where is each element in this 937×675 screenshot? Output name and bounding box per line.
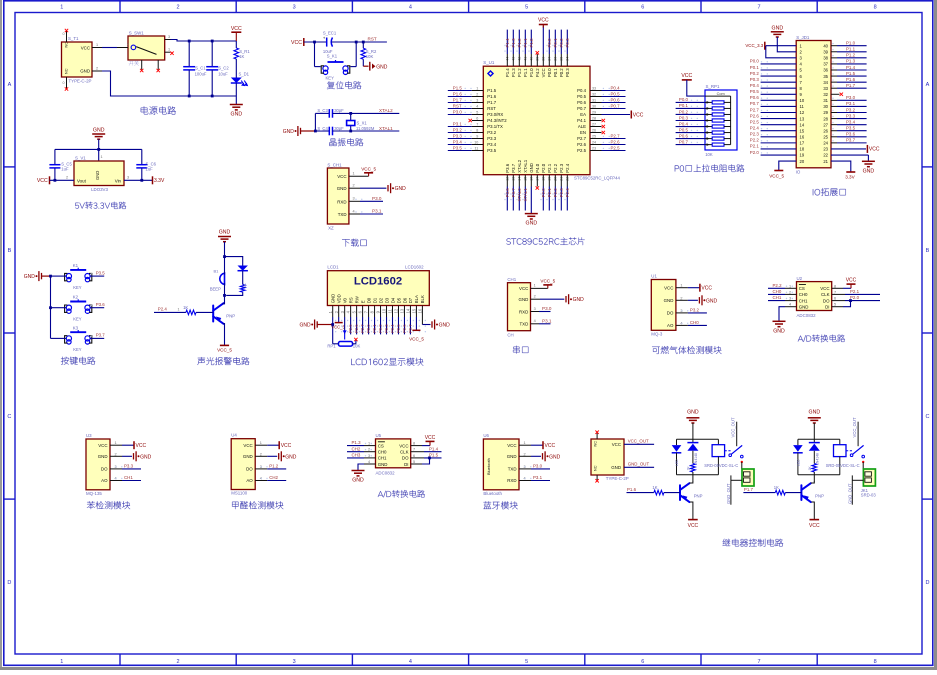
svg-text:GND: GND (611, 465, 621, 470)
ground GND power (235, 96, 237, 105)
svg-text:P3.2: P3.2 (487, 130, 496, 135)
svg-text:IO: IO (796, 170, 801, 175)
svg-text:VCC: VCC (612, 442, 621, 447)
svg-text:2: 2 (260, 452, 262, 456)
resistor element RP1 row 5 P0.4 (676, 126, 705, 128)
svg-text:11.0592M: 11.0592M (356, 126, 375, 131)
svg-text:1uF: 1uF (146, 166, 154, 171)
svg-text:11: 11 (388, 308, 393, 313)
svg-text:16: 16 (800, 134, 805, 139)
svg-text:D3: D3 (384, 297, 389, 303)
svg-text:DI: DI (825, 305, 829, 310)
pin CH1.2 GND (531, 298, 541, 300)
svg-text:S_JD1: S_JD1 (796, 35, 810, 40)
svg-text:VCC_OUT: VCC_OUT (730, 417, 735, 437)
svg-text:14: 14 (800, 122, 805, 127)
svg-text:P3.6: P3.6 (505, 163, 510, 172)
svg-text:30pF: 30pF (334, 126, 344, 131)
svg-text:MQ-135: MQ-135 (86, 491, 102, 496)
svg-text:39: 39 (823, 49, 828, 54)
svg-text:GND: GND (243, 454, 253, 459)
svg-text:P3.0: P3.0 (542, 306, 552, 311)
svg-text:Bluetooth: Bluetooth (486, 458, 491, 475)
svg-text:7: 7 (834, 290, 836, 294)
svg-text:P3.4: P3.4 (487, 142, 496, 147)
wire top rail C5-C6 (55, 148, 142, 150)
pin S_SW1.3 (165, 39, 171, 41)
svg-text:Vout: Vout (77, 178, 87, 183)
svg-text:DO: DO (101, 467, 108, 472)
svg-text:P0.2: P0.2 (559, 68, 564, 77)
label 声光报警电路 (197, 357, 249, 365)
svg-text:2: 2 (789, 290, 791, 294)
svg-text:P4.3/INT2: P4.3/INT2 (487, 118, 507, 123)
svg-text:1K: 1K (239, 54, 244, 59)
svg-text:VCC: VCC (243, 443, 252, 448)
label 开关 (129, 61, 139, 66)
svg-text:ADC0832: ADC0832 (376, 470, 396, 475)
svg-text:5: 5 (834, 303, 836, 307)
svg-text:S_U1: S_U1 (483, 60, 495, 65)
wire relay top rail (677, 438, 719, 440)
svg-text:BLK: BLK (420, 295, 425, 303)
svg-text:P1.2: P1.2 (269, 464, 279, 469)
svg-text:P3.6: P3.6 (96, 302, 106, 307)
svg-text:15: 15 (412, 308, 417, 313)
svg-text:GND: GND (285, 454, 297, 460)
svg-text:D5: D5 (396, 297, 401, 303)
wire JD1 pin23 VCC (831, 148, 866, 150)
wire JD1 pin35 P1.5 (831, 75, 837, 77)
wire JD1 pin36 P1.4 (831, 69, 837, 71)
svg-text:LCD1602: LCD1602 (354, 276, 402, 288)
svg-text:P3.1: P3.1 (846, 101, 856, 106)
svg-text:35: 35 (823, 74, 828, 79)
svg-text:30pF: 30pF (334, 108, 344, 113)
svg-text:P0.1: P0.1 (553, 68, 558, 77)
svg-text:GND: GND (439, 323, 451, 329)
svg-text:2: 2 (534, 295, 536, 299)
svg-text:24: 24 (823, 141, 828, 146)
svg-text:GND: GND (331, 294, 336, 304)
svg-text:P0.3: P0.3 (750, 77, 760, 82)
svg-text:6: 6 (641, 4, 644, 10)
svg-text:TYPE-C-2P: TYPE-C-2P (69, 79, 92, 84)
resistor relay 1K (812, 464, 817, 473)
svg-text:1: 1 (534, 284, 536, 288)
svg-text:S_K1: S_K1 (327, 53, 338, 58)
svg-text:GND: GND (549, 454, 561, 460)
svg-text:8: 8 (874, 659, 877, 665)
wire JD1 pin9 P0.5 (761, 93, 797, 95)
svg-text:GND: GND (706, 298, 718, 304)
svg-text:BEEP: BEEP (210, 287, 221, 292)
svg-text:P1.3: P1.3 (511, 68, 516, 77)
svg-text:P0.4: P0.4 (611, 85, 621, 90)
svg-text:CH0: CH0 (378, 450, 387, 455)
capacitor S_C4 30pF (328, 127, 330, 136)
svg-text:P1.6: P1.6 (627, 487, 637, 492)
pins S_SW1 bottom NC (141, 60, 143, 70)
svg-text:18: 18 (800, 147, 805, 152)
label 5V转3.3V电路 (75, 202, 126, 209)
svg-text:P3.5: P3.5 (453, 145, 463, 150)
svg-text:CS: CS (378, 443, 384, 448)
svg-text:P0.7: P0.7 (408, 324, 413, 333)
wire VCC_3.3 to pin3 (766, 46, 796, 58)
svg-text:3: 3 (127, 175, 129, 179)
svg-text:P3.3: P3.3 (487, 136, 496, 141)
svg-text:VCC: VCC (81, 45, 90, 50)
svg-text:P3.4: P3.4 (453, 139, 463, 144)
svg-text:TYPE-C-2P: TYPE-C-2P (606, 476, 629, 481)
svg-text:D0: D0 (366, 297, 371, 303)
svg-text:P0.7: P0.7 (611, 103, 621, 108)
svg-text:P3.4: P3.4 (846, 119, 856, 124)
svg-text:RS: RS (348, 297, 353, 303)
svg-text:RW: RW (354, 295, 359, 303)
pin CH1.3 RXD P3.0 (349, 200, 360, 202)
ground GND keys (36, 275, 38, 277)
svg-text:AO: AO (667, 323, 674, 328)
svg-text:VCC: VCC (820, 286, 829, 291)
capacitor S_C3 30pF (315, 112, 329, 114)
svg-text:2: 2 (127, 43, 129, 47)
svg-text:S_CH1: S_CH1 (327, 163, 342, 168)
svg-text:7: 7 (757, 659, 760, 665)
svg-text:BLA: BLA (414, 295, 419, 303)
svg-text:15: 15 (800, 128, 805, 133)
svg-text:LED: LED (796, 459, 800, 466)
svg-text:D4: D4 (390, 297, 395, 303)
svg-text:7: 7 (757, 4, 760, 10)
capacitor S_C6 1uF (141, 149, 143, 164)
svg-text:K3: K3 (73, 325, 79, 330)
svg-text:26: 26 (823, 128, 828, 133)
svg-text:31: 31 (823, 98, 828, 103)
svg-text:ALE: ALE (578, 124, 586, 129)
svg-text:VCC: VCC (399, 443, 408, 448)
svg-text:10K: 10K (366, 54, 374, 59)
wire JD1 pin8 P0.4 (761, 87, 797, 89)
svg-text:29: 29 (823, 110, 828, 115)
capacitor S_C2 10uF (211, 41, 213, 67)
svg-text:P3.7: P3.7 (511, 163, 516, 172)
svg-text:P2.5: P2.5 (348, 324, 353, 333)
svg-text:AO: AO (101, 478, 108, 483)
pin CH1.3 RXD P3.0 (531, 311, 540, 313)
svg-text:K2: K2 (73, 295, 79, 300)
svg-text:1: 1 (101, 155, 103, 159)
svg-text:P3.3: P3.3 (124, 464, 134, 469)
resistor (alarm LED) (240, 285, 245, 293)
svg-text:P2.5: P2.5 (577, 148, 586, 153)
svg-text:GND: GND (773, 328, 785, 334)
svg-text:21: 21 (823, 159, 828, 164)
power VCC relay emitter (688, 519, 698, 521)
svg-text:P0.1: P0.1 (553, 38, 558, 48)
svg-text:VCC: VCC (688, 523, 699, 529)
power VCC relay emitter (810, 519, 820, 521)
LED D (alarm) (238, 266, 248, 271)
svg-text:RST: RST (487, 106, 496, 111)
svg-text:10uF: 10uF (218, 72, 228, 77)
svg-text:P3.5: P3.5 (846, 126, 856, 131)
wire JD1 pin10 P0.6 (761, 99, 797, 101)
wire JD1 pin20 to VCC_5 (779, 161, 796, 170)
svg-text:RST: RST (368, 37, 377, 42)
svg-text:28: 28 (823, 116, 828, 121)
svg-text:100uF: 100uF (195, 72, 207, 77)
connector S_CH1 XZ (327, 168, 349, 224)
svg-text:MQ-3: MQ-3 (651, 331, 663, 336)
svg-text:ADC0832: ADC0832 (797, 313, 817, 318)
wire JD1 pin33 P1.7 (831, 87, 837, 89)
diode 1N4148 flyback (692, 439, 694, 442)
svg-text:1K: 1K (183, 305, 188, 310)
svg-text:1: 1 (260, 441, 262, 445)
svg-text:P3.1: P3.1 (372, 209, 382, 214)
label LCD1602显示模块 (351, 358, 423, 366)
svg-text:P0.7: P0.7 (750, 101, 760, 106)
svg-text:Bluetooth: Bluetooth (483, 491, 502, 496)
svg-text:GND: GND (98, 454, 108, 459)
svg-text:P1.3: P1.3 (511, 38, 516, 48)
wire JD1 pin34 P1.6 (831, 81, 837, 83)
wire T1 VCC to SW1 (102, 47, 117, 49)
wire relay bottom rail (677, 474, 719, 476)
key K1 (66, 274, 71, 282)
pin S_T1.bottom (66, 77, 68, 89)
svg-text:KEY: KEY (73, 347, 82, 352)
svg-text:GND: GND (376, 64, 388, 70)
svg-text:VCC: VCC (231, 26, 242, 32)
svg-text:S_C4: S_C4 (317, 126, 328, 131)
svg-text:CH2: CH2 (352, 446, 361, 451)
svg-text:GND: GND (687, 410, 699, 416)
svg-text:U6: U6 (483, 433, 489, 438)
svg-text:P2.1: P2.1 (547, 163, 552, 172)
svg-text:VCC_5: VCC_5 (331, 324, 345, 329)
label 甲醛检测模块 (232, 501, 283, 509)
svg-text:P0.3: P0.3 (679, 115, 689, 120)
resistor element RP1 row 3 P0.2 (676, 113, 705, 115)
svg-text:XTAL1: XTAL1 (523, 159, 528, 172)
svg-text:LCD1602: LCD1602 (405, 265, 424, 270)
svg-text:25: 25 (823, 134, 828, 139)
svg-text:XZ: XZ (328, 226, 334, 231)
svg-text:P1.2: P1.2 (517, 68, 522, 77)
svg-text:GND: GND (337, 186, 347, 191)
svg-text:VCC: VCC (809, 523, 820, 529)
svg-text:2: 2 (66, 175, 68, 179)
svg-text:0: 0 (63, 32, 65, 36)
label 继电器控制电路 (722, 539, 783, 547)
module U3 MQ-135 (86, 439, 110, 490)
svg-text:1: 1 (353, 172, 355, 176)
wire VCC to RP1 com (687, 80, 705, 96)
svg-text:1K: 1K (687, 466, 691, 471)
resistor base 1K (743, 492, 775, 494)
label A/D转换电路 (798, 334, 845, 342)
svg-text:GND: GND (573, 297, 585, 303)
svg-text:VCC: VCC (519, 286, 528, 291)
svg-text:12: 12 (800, 110, 805, 115)
svg-text:4: 4 (789, 303, 791, 307)
svg-text:P2.4: P2.4 (158, 307, 168, 312)
svg-text:DI: DI (404, 462, 408, 467)
svg-text:6: 6 (834, 297, 836, 301)
svg-text:P0.6: P0.6 (750, 95, 760, 100)
wire XTAL1 row (333, 130, 400, 132)
svg-text:19: 19 (800, 153, 805, 158)
svg-text:P0.0: P0.0 (750, 59, 760, 64)
svg-text:27: 27 (823, 122, 828, 127)
svg-text:P1.4: P1.4 (846, 65, 856, 70)
svg-text:P0.6: P0.6 (577, 100, 586, 105)
connector S_JD1 IO (796, 41, 831, 168)
svg-text:3: 3 (168, 35, 170, 39)
MCU S_U1 STC89C52RC_LQFP44 (483, 66, 590, 175)
svg-text:CH1: CH1 (124, 475, 133, 480)
svg-text:P2.1: P2.1 (850, 289, 860, 294)
svg-text:3: 3 (293, 4, 296, 10)
svg-text:P1.0: P1.0 (529, 38, 534, 48)
wire bottom rail (102, 71, 236, 96)
wire V0 to potentiometer wiper (344, 317, 346, 334)
svg-text:PNP: PNP (226, 314, 235, 319)
resistor relay 1K (691, 464, 696, 473)
svg-text:P1.6: P1.6 (453, 91, 463, 96)
svg-text:2: 2 (368, 448, 370, 452)
power VCC_5 LCD pin2 (338, 317, 340, 323)
wire Vin to 3.3V (124, 179, 153, 181)
svg-text:1: 1 (168, 48, 170, 52)
svg-text:GND_OUT: GND_OUT (628, 462, 650, 467)
svg-text:2: 2 (96, 66, 98, 70)
wire JD1 pin6 P0.2 (761, 75, 797, 77)
svg-text:CH: CH (507, 333, 513, 338)
svg-text:P3.1: P3.1 (533, 475, 543, 480)
svg-text:P2.0: P2.0 (541, 163, 546, 172)
wire JD1 pin12 P2.7 (761, 112, 797, 114)
svg-text:SRD-05VDC-SL-C: SRD-05VDC-SL-C (826, 463, 860, 468)
svg-text:3: 3 (534, 307, 536, 311)
svg-text:P0.7: P0.7 (679, 139, 689, 144)
svg-text:P1.3: P1.3 (846, 59, 856, 64)
svg-text:U2: U2 (797, 276, 803, 281)
svg-text:VDD: VDD (336, 294, 341, 303)
svg-text:5: 5 (525, 659, 528, 665)
resistor S_R2 10K (362, 42, 364, 48)
svg-text:P0.5: P0.5 (611, 91, 621, 96)
svg-text:B: B (926, 248, 930, 254)
svg-text:P1.7: P1.7 (846, 83, 856, 88)
svg-text:1: 1 (60, 4, 63, 10)
svg-text:P0.4: P0.4 (577, 88, 586, 93)
svg-text:3: 3 (789, 297, 791, 301)
svg-text:VCC: VCC (541, 68, 546, 77)
svg-text:P3.2: P3.2 (690, 308, 700, 313)
svg-text:TXD: TXD (508, 467, 517, 472)
svg-text:1K: 1K (652, 485, 657, 490)
svg-text:RXD: RXD (337, 199, 346, 204)
svg-text:CH0: CH0 (773, 289, 782, 294)
svg-text:GND: GND (24, 274, 36, 280)
svg-text:S_D1: S_D1 (239, 72, 250, 77)
svg-text:P2.3: P2.3 (750, 132, 760, 137)
svg-text:DO: DO (402, 456, 409, 461)
svg-text:P1.6: P1.6 (846, 77, 856, 82)
svg-text:VCC_5: VCC_5 (540, 278, 555, 283)
svg-text:38: 38 (823, 56, 828, 61)
svg-text:P2.7: P2.7 (577, 136, 586, 141)
svg-text:MS1100: MS1100 (231, 491, 248, 496)
svg-text:32: 32 (823, 92, 828, 97)
svg-text:P3.0/RX: P3.0/RX (487, 112, 503, 117)
svg-text:TXD: TXD (338, 212, 347, 217)
label 可燃气体检测模块 (652, 346, 721, 354)
svg-text:P1.2: P1.2 (846, 53, 856, 58)
svg-text:VCC: VCC (681, 73, 692, 79)
svg-text:10K: 10K (353, 343, 361, 348)
svg-text:P0.2: P0.2 (378, 324, 383, 333)
svg-text:EN: EN (580, 130, 586, 135)
svg-text:P0.6: P0.6 (679, 133, 689, 138)
svg-text:P3.0: P3.0 (533, 464, 543, 469)
svg-text:P3.1: P3.1 (453, 121, 463, 126)
svg-text:VCC: VCC (538, 17, 549, 23)
svg-text:P1.7: P1.7 (453, 97, 463, 102)
svg-text:13: 13 (800, 116, 805, 121)
svg-text:P4.2: P4.2 (535, 68, 540, 77)
svg-text:VCC: VCC (291, 40, 302, 46)
svg-text:P0.5: P0.5 (577, 94, 586, 99)
capacitor S_EC1 10uF electrolytic (326, 41, 328, 43)
svg-text:P1.2: P1.2 (517, 38, 522, 48)
wire JD1 pin32 X (831, 93, 840, 95)
svg-text:VCC: VCC (846, 278, 857, 284)
svg-text:6: 6 (413, 454, 415, 458)
svg-text:1K: 1K (808, 466, 812, 471)
svg-text:1K: 1K (243, 283, 247, 288)
svg-text:U4: U4 (231, 433, 237, 438)
svg-text:P1.0: P1.0 (846, 41, 856, 46)
wire XTAL2 row (333, 112, 400, 114)
svg-text:3: 3 (368, 454, 370, 458)
label STC89C52RC主芯片 (506, 237, 584, 245)
svg-text:KEY: KEY (73, 317, 82, 322)
svg-text:P1.4: P1.4 (505, 38, 510, 48)
crystal S_X1 (350, 113, 352, 131)
svg-text:GND: GND (664, 298, 674, 303)
wire relay bottom rail (798, 474, 840, 476)
svg-text:P2.4: P2.4 (750, 126, 760, 131)
label IO拓展口 (813, 188, 846, 196)
svg-text:NC: NC (594, 441, 598, 447)
svg-text:1: 1 (60, 659, 63, 665)
svg-text:P3.6: P3.6 (505, 188, 510, 198)
svg-text:A: A (8, 82, 12, 88)
svg-text:P2.4: P2.4 (565, 188, 570, 198)
connector S_T1 TYPE-C-2P (62, 42, 93, 77)
svg-text:4: 4 (368, 460, 370, 464)
svg-text:B: B (8, 248, 12, 254)
power VCC_5 LCD pin15 (415, 317, 417, 330)
svg-text:1: 1 (368, 442, 370, 446)
capacitor S_C5 1uF (54, 149, 56, 164)
ground GND LCD pin1 (311, 324, 313, 326)
